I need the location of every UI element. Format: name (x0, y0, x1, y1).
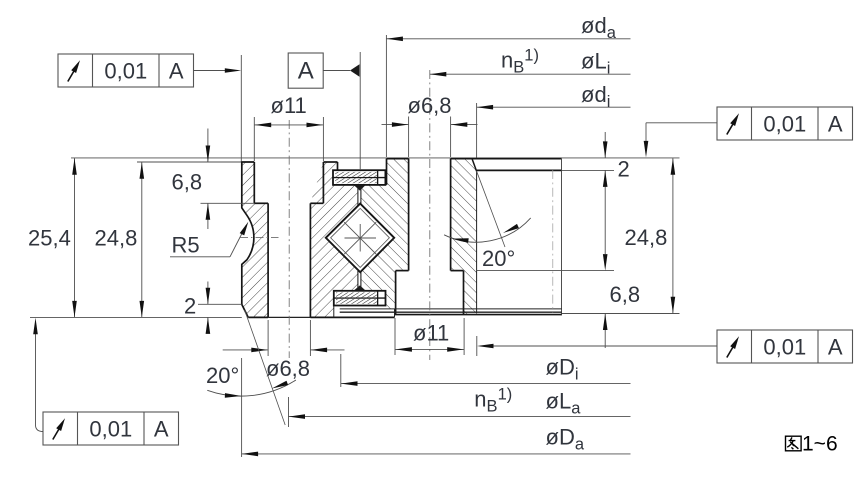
dimension 24,8 left (141, 162, 143, 317)
bottom roller stem (357, 271, 359, 289)
extension line counterbore top to right (477, 270, 614, 272)
datum A box (288, 53, 323, 88)
dimension odi (476, 103, 478, 158)
dimension nB1) + oLa (288, 397, 290, 427)
tolerance frame F4 bottom-left (runout 0,01 A) (43, 412, 179, 445)
svg-text:2: 2 (184, 293, 196, 318)
svg-text:øLi: øLi (581, 49, 610, 78)
svg-text:20°: 20° (206, 363, 239, 388)
svg-text:A: A (298, 57, 314, 84)
dimension nB1) + oLi (430, 73, 631, 75)
extension line: left ring bottom face extended left (30, 316, 242, 318)
through hole o6,8 inner ring (408, 159, 410, 271)
svg-text:1~6: 1~6 (802, 433, 838, 456)
svg-text:0,01: 0,01 (104, 58, 147, 83)
svg-text:6,8: 6,8 (610, 282, 641, 307)
2mm recess line (477, 169, 562, 171)
dimension oDi (340, 354, 342, 387)
tolerance frame F2 top-right (runout 0,01 A) (717, 107, 853, 140)
svg-text:ø6,8: ø6,8 (266, 356, 310, 381)
svg-text:25,4: 25,4 (28, 226, 71, 251)
bevel extension line top right (477, 171, 505, 247)
svg-text:A: A (154, 416, 169, 441)
bottom seal carrier block (334, 291, 386, 306)
inner ring bore edge (561, 159, 563, 316)
recess land edge (476, 171, 478, 313)
svg-text:20°: 20° (482, 246, 515, 271)
extension line: top face level (25,4 / right 24,8 upper reference) (71, 157, 680, 159)
left hole centerline (288, 120, 290, 358)
frame F3 leader (480, 345, 717, 347)
dimension 6,8 left (counterbore depth) (207, 129, 209, 163)
dimension oda (385, 35, 387, 157)
tolerance frame F1 top-left (runout 0,01 A) (58, 54, 194, 87)
bottom seal strip (340, 308, 562, 310)
wall edge (386, 159, 388, 185)
bevel 20deg top right (472, 159, 477, 172)
counterbore o11 inner ring (396, 270, 409, 272)
bottom seal lip wedge (354, 285, 365, 290)
bevel extension line bottom left (245, 310, 286, 425)
crossed roller section (326, 204, 394, 273)
svg-text:øDi: øDi (546, 355, 579, 384)
dimension 24,8 right (672, 158, 674, 313)
R5 groove centerline (240, 237, 279, 239)
outer ring outline (242, 162, 255, 317)
svg-text:A: A (828, 111, 843, 136)
dimension 6,8 right (603, 254, 608, 271)
dimension 2 right (604, 132, 606, 158)
svg-text:R5: R5 (172, 233, 200, 258)
svg-text:0,01: 0,01 (89, 416, 132, 441)
frame F2 leader (646, 122, 717, 124)
dimension o11 top (253, 117, 255, 161)
roller pitch line extension (359, 52, 361, 170)
svg-text:A: A (169, 58, 184, 83)
extension line: right ring bottom extended right (562, 313, 680, 315)
right hole centerline (429, 70, 431, 360)
top seal carrier block (333, 170, 385, 185)
datum A leader and triangle (323, 70, 350, 72)
svg-text:ø6,8: ø6,8 (408, 93, 452, 118)
inner ring bottom faces (395, 314, 562, 316)
inner ring hatch (361, 159, 409, 309)
left ring bottom face (248, 316, 268, 318)
dimension o6,8 top (408, 117, 410, 158)
extension line: left ring top face extended left (137, 161, 242, 163)
dimension o11 bottom (394, 318, 396, 355)
svg-text:24,8: 24,8 (625, 225, 668, 250)
angle 20 deg top (444, 218, 531, 242)
top seal lip wedge (354, 185, 365, 190)
svg-text:ø11: ø11 (413, 321, 449, 346)
svg-text:ødi: ødi (581, 82, 610, 111)
top roller stem (357, 187, 359, 205)
svg-text:0,01: 0,01 (763, 334, 806, 359)
inner ring top faces (387, 158, 409, 160)
counterbore o11 left ring (253, 162, 255, 203)
dimension oDa (241, 358, 243, 457)
roller axis star (345, 237, 377, 239)
tolerance frame F3 bottom-right (runout 0,01 A) (717, 330, 853, 363)
svg-text:ø11: ø11 (271, 93, 307, 118)
svg-text:A: A (828, 334, 843, 359)
dimension 2 left (207, 282, 209, 305)
svg-text:6,8: 6,8 (172, 170, 203, 195)
svg-text:24,8: 24,8 (95, 226, 138, 251)
bore seam centerline (552, 170, 554, 313)
through hole o6,8 left ring (267, 203, 269, 317)
caption 图1~6 (786, 436, 802, 451)
svg-text:2: 2 (618, 157, 630, 182)
extension above left ring edge (240, 55, 242, 162)
frame F4 leader (36, 322, 44, 432)
outer ring left section hatch (242, 162, 268, 317)
dimension o6,8 bottom (267, 320, 269, 356)
angle 20 deg bottom (207, 380, 296, 396)
svg-text:0,01: 0,01 (763, 111, 806, 136)
frame F1 leader arrow (194, 70, 238, 72)
dimension 25,4 (74, 158, 76, 317)
